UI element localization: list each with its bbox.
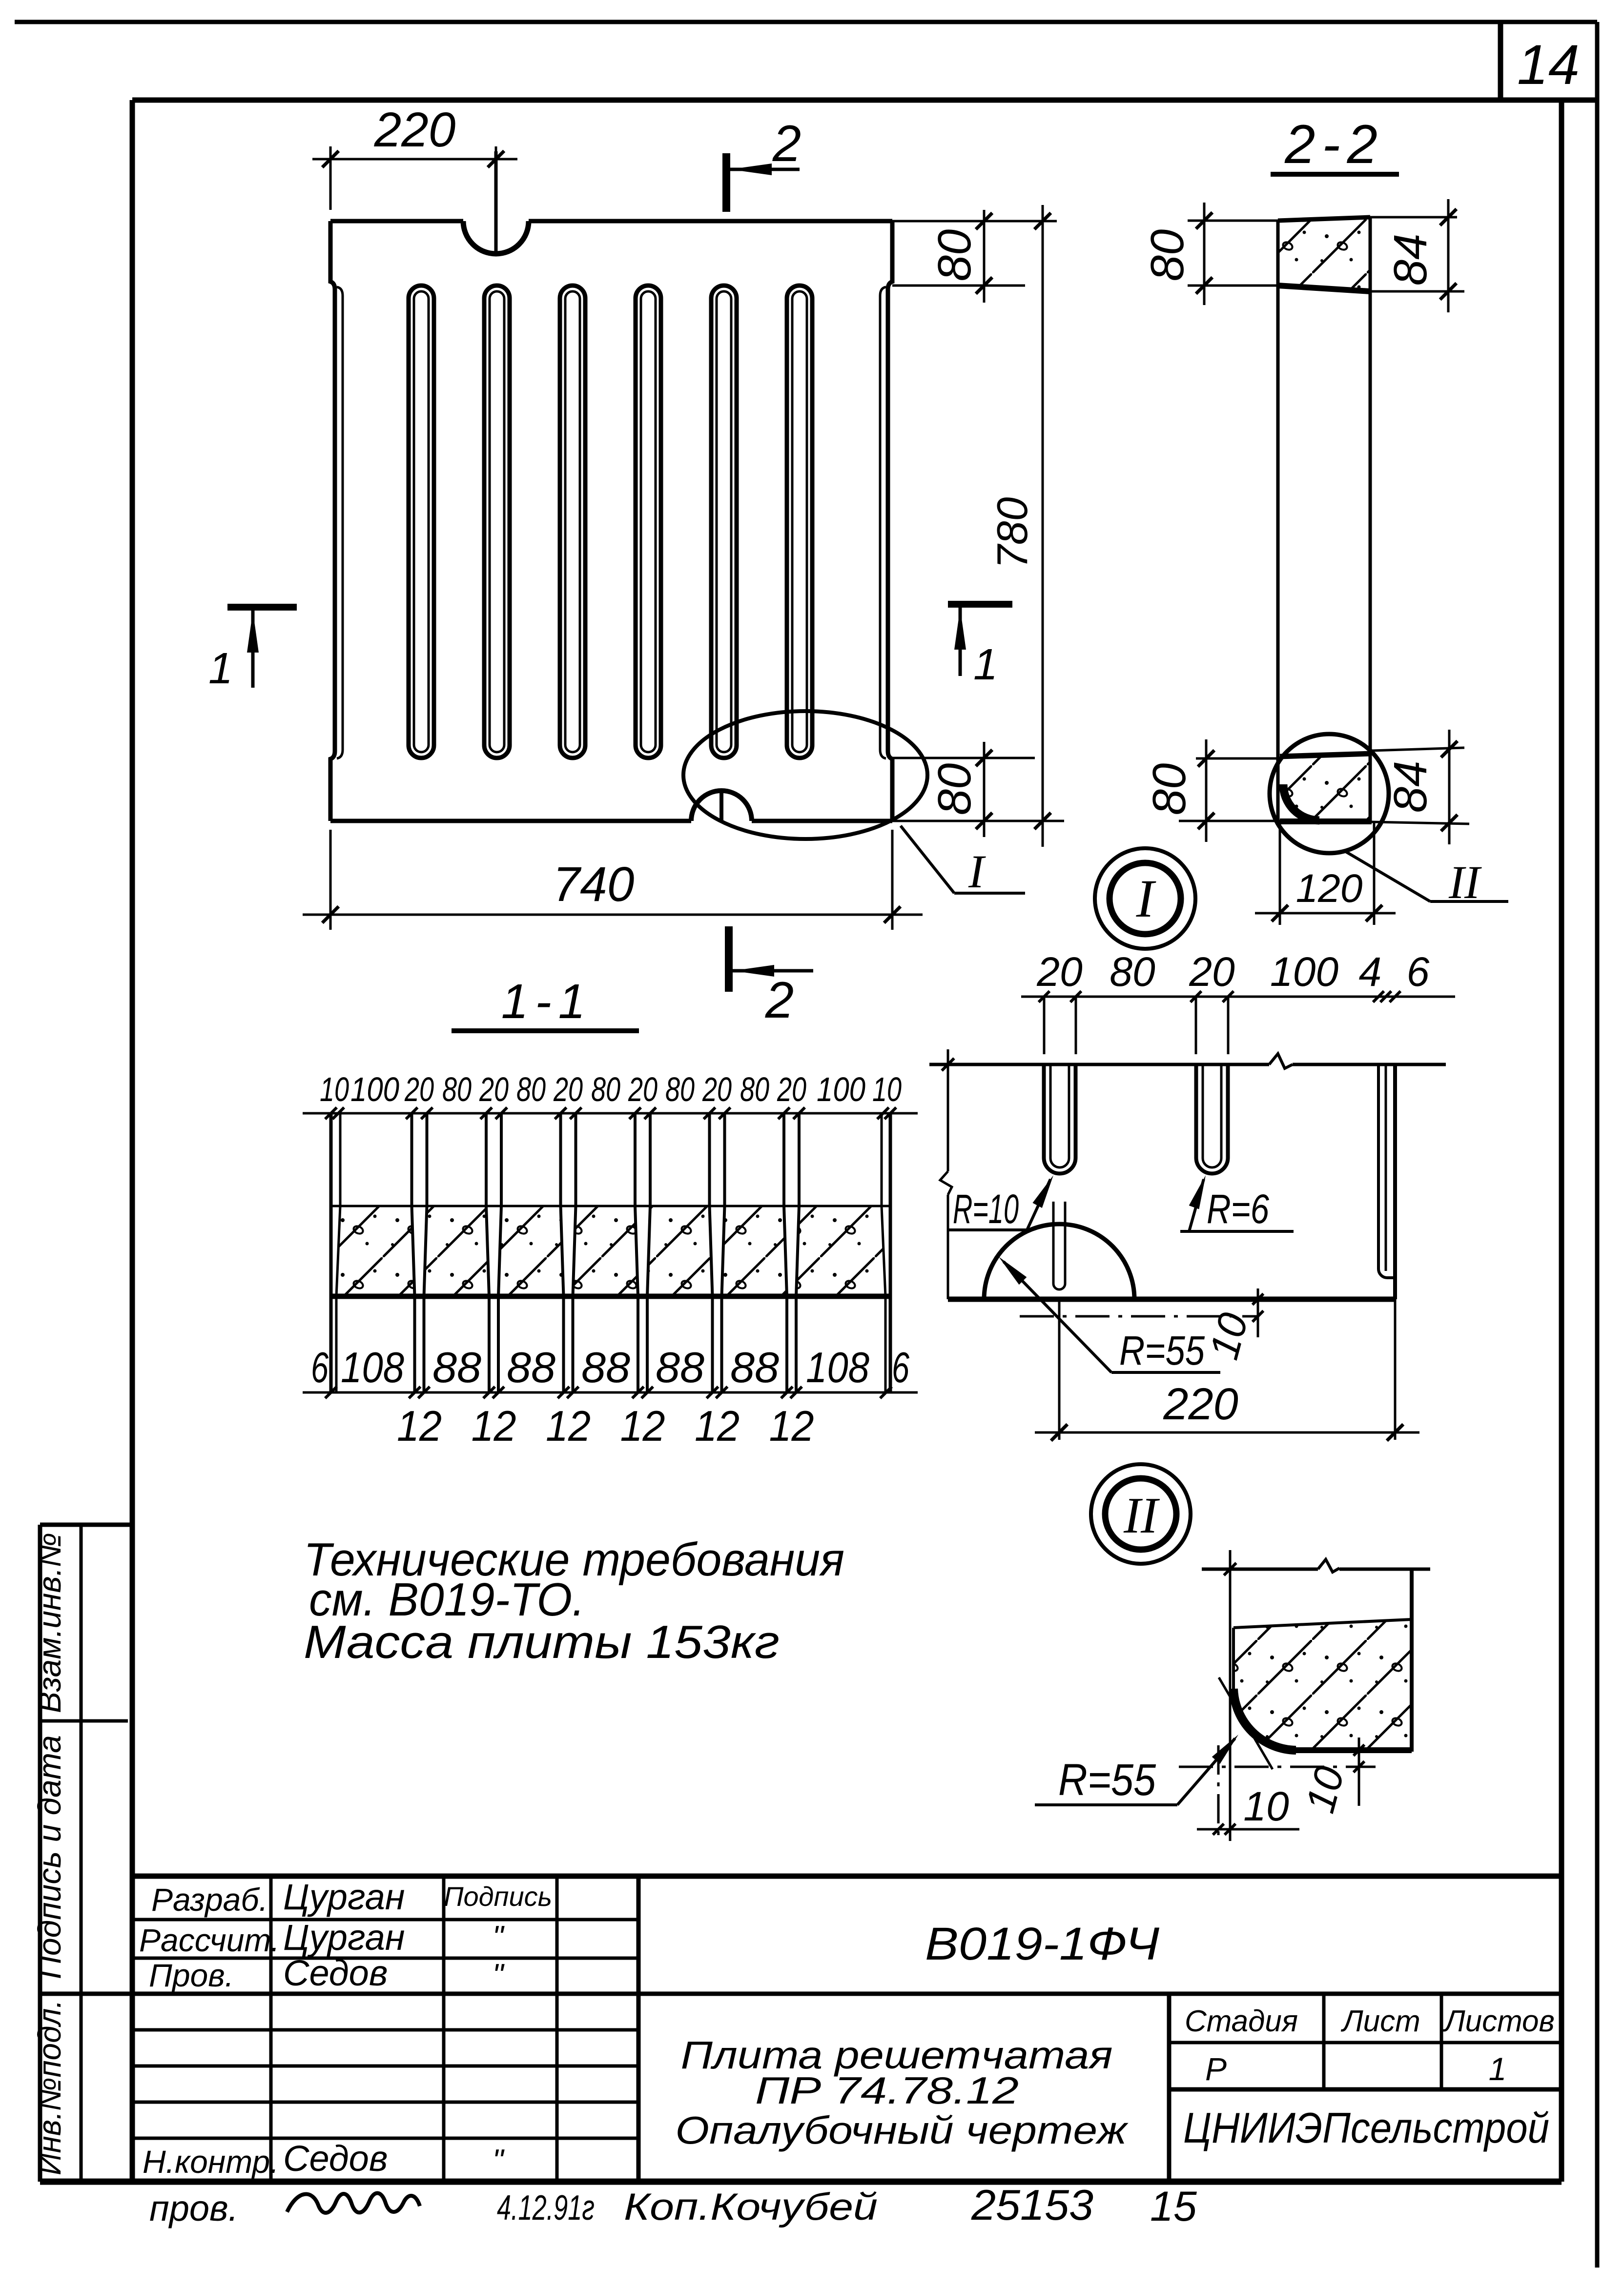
svg-text:2-2: 2-2	[1284, 114, 1384, 175]
svg-text:10: 10	[1243, 1783, 1289, 1829]
svg-text:780: 780	[988, 497, 1036, 569]
svg-text:12: 12	[546, 1402, 591, 1450]
svg-text:10: 10	[320, 1070, 349, 1108]
svg-text:80: 80	[928, 763, 981, 816]
svg-text:Подпись: Подпись	[444, 1881, 552, 1912]
svg-text:II: II	[1123, 1487, 1160, 1544]
svg-text:Рассчит.: Рассчит.	[139, 1922, 280, 1958]
svg-text:I: I	[1136, 869, 1156, 928]
svg-text:1: 1	[208, 644, 233, 693]
svg-text:Взам.инв.№: Взам.инв.№	[31, 1533, 67, 1713]
svg-text:84: 84	[1384, 761, 1437, 813]
svg-text:R=55: R=55	[1119, 1328, 1205, 1373]
svg-text:Цурган: Цурган	[283, 1917, 405, 1958]
svg-text:2: 2	[765, 972, 794, 1029]
svg-text:6: 6	[1407, 949, 1430, 995]
svg-text:80: 80	[1143, 763, 1195, 816]
svg-text:Пров.: Пров.	[149, 1957, 234, 1993]
svg-text:": "	[493, 1957, 505, 1992]
svg-text:20: 20	[777, 1070, 806, 1108]
svg-text:108: 108	[341, 1343, 404, 1391]
svg-text:Седов: Седов	[283, 1953, 388, 1993]
svg-text:II: II	[1448, 856, 1482, 908]
svg-text:R=10: R=10	[953, 1186, 1019, 1232]
svg-text:1: 1	[1489, 2051, 1507, 2087]
svg-text:25153: 25153	[971, 2181, 1093, 2229]
svg-text:пров.: пров.	[149, 2188, 238, 2229]
svg-text:80: 80	[516, 1070, 546, 1108]
svg-text:4: 4	[1359, 949, 1382, 995]
svg-text:ПР 74.78.12: ПР 74.78.12	[755, 2069, 1019, 2112]
svg-text:Масса плиты 153кг: Масса плиты 153кг	[304, 1616, 780, 1668]
svg-text:ЦНИИЭПсельстрой: ЦНИИЭПсельстрой	[1183, 2104, 1549, 2152]
svg-text:80: 80	[665, 1070, 695, 1108]
svg-text:80: 80	[1110, 949, 1155, 995]
svg-text:Инв.№подл.: Инв.№подл.	[31, 2000, 67, 2175]
svg-text:Н.контр.: Н.контр.	[143, 2144, 279, 2180]
svg-text:88: 88	[432, 1343, 481, 1391]
svg-text:2: 2	[772, 115, 801, 172]
svg-text:80: 80	[1141, 229, 1193, 282]
svg-text:Лист: Лист	[1340, 2004, 1420, 2038]
svg-text:120: 120	[1296, 866, 1363, 911]
svg-text:": "	[493, 1919, 505, 1954]
svg-text:80: 80	[740, 1070, 769, 1108]
svg-text:20: 20	[1189, 949, 1235, 995]
svg-text:10: 10	[872, 1070, 902, 1108]
svg-text:14: 14	[1517, 34, 1580, 96]
svg-text:740: 740	[553, 857, 635, 912]
svg-text:15: 15	[1150, 2183, 1197, 2230]
svg-text:Р: Р	[1205, 2051, 1227, 2087]
svg-text:12: 12	[695, 1402, 740, 1450]
svg-text:20: 20	[628, 1070, 658, 1108]
svg-text:12: 12	[472, 1402, 516, 1450]
svg-text:Листов: Листов	[1442, 2004, 1555, 2038]
svg-text:1-1: 1-1	[501, 974, 593, 1029]
svg-text:4.12.91г: 4.12.91г	[497, 2188, 595, 2228]
svg-text:12: 12	[620, 1402, 665, 1450]
svg-text:6: 6	[892, 1343, 909, 1391]
svg-text:1: 1	[973, 640, 998, 689]
svg-text:88: 88	[656, 1343, 704, 1391]
svg-text:В019-1ФЧ: В019-1ФЧ	[925, 1918, 1160, 1970]
svg-text:Цурган: Цурган	[283, 1877, 405, 1917]
svg-text:20: 20	[479, 1070, 509, 1108]
svg-text:108: 108	[806, 1343, 869, 1391]
svg-text:Разраб.: Разраб.	[151, 1881, 268, 1918]
svg-text:20: 20	[553, 1070, 583, 1108]
svg-text:100: 100	[1270, 949, 1338, 995]
svg-text:100: 100	[350, 1070, 399, 1108]
svg-text:100: 100	[817, 1070, 865, 1108]
svg-text:20: 20	[1036, 949, 1083, 995]
svg-text:80: 80	[591, 1070, 620, 1108]
svg-text:Подпись и дата: Подпись и дата	[31, 1735, 67, 1979]
svg-text:Стадия: Стадия	[1185, 2004, 1298, 2038]
svg-text:12: 12	[397, 1402, 442, 1450]
svg-text:I: I	[968, 845, 986, 898]
svg-text:R=55: R=55	[1058, 1755, 1156, 1805]
svg-text:220: 220	[374, 102, 456, 157]
svg-text:R=6: R=6	[1207, 1186, 1269, 1232]
svg-text:20: 20	[404, 1070, 434, 1108]
svg-text:": "	[493, 2143, 505, 2178]
svg-text:84: 84	[1384, 234, 1437, 286]
svg-text:Опалубочный чертеж: Опалубочный чертеж	[676, 2108, 1129, 2152]
svg-text:6: 6	[311, 1343, 329, 1391]
svg-text:220: 220	[1163, 1379, 1238, 1429]
svg-text:Коп.Кочубей: Коп.Кочубей	[624, 2185, 878, 2228]
svg-text:80: 80	[442, 1070, 472, 1108]
svg-text:88: 88	[581, 1343, 630, 1391]
svg-text:88: 88	[730, 1343, 779, 1391]
svg-text:80: 80	[928, 229, 981, 282]
svg-text:20: 20	[702, 1070, 732, 1108]
svg-text:88: 88	[507, 1343, 555, 1391]
svg-text:12: 12	[769, 1402, 814, 1450]
svg-text:Седов: Седов	[283, 2138, 388, 2179]
